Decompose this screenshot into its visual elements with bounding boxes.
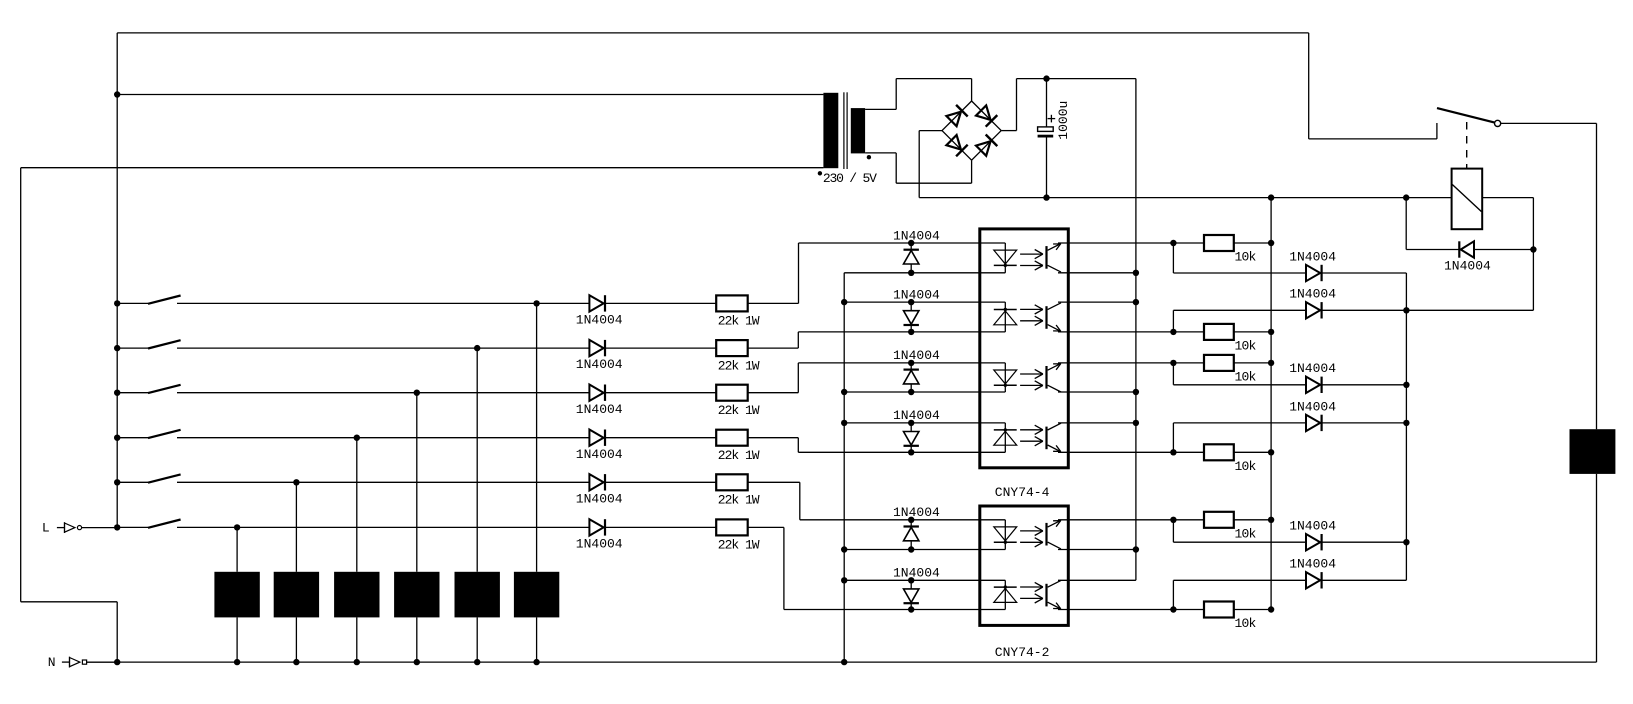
junction row 5 lamp drop bbox=[293, 479, 299, 485]
opto channel 3 light arrows bbox=[1020, 369, 1043, 390]
opto channel 4 LED bbox=[994, 423, 1017, 452]
junction N rail bbox=[114, 659, 120, 665]
wire secondary top c bbox=[896, 78, 971, 80]
junction lamp E5 N rail bbox=[293, 659, 299, 665]
wire right vertical upper bbox=[1596, 123, 1598, 429]
svg-text:1N4004: 1N4004 bbox=[1444, 259, 1491, 274]
wire row 6 to diode bbox=[177, 526, 589, 528]
transformer TR1 core bbox=[844, 92, 847, 169]
wire +5V rail top bbox=[1017, 78, 1136, 80]
opto channel 4 phototransistor bbox=[1047, 423, 1062, 452]
wire row 1 to diode bbox=[177, 302, 589, 304]
junction relay bus diode row 4 bbox=[1403, 420, 1409, 426]
wire switch S2 stub bbox=[117, 347, 148, 349]
junction D8 top bbox=[908, 299, 914, 305]
junction D9 top bbox=[908, 360, 914, 366]
wire diode row 4 right bbox=[1322, 422, 1407, 424]
svg-text:22k 1W: 22k 1W bbox=[718, 493, 760, 508]
junction D10 bottom bbox=[908, 449, 914, 455]
wire contact stub bbox=[1436, 123, 1438, 139]
wire row 2 to diode bbox=[177, 347, 589, 349]
lamp load E4 bbox=[334, 572, 379, 618]
resistor R10 10k bbox=[1204, 444, 1234, 460]
wire LED return ch4 bbox=[844, 422, 1005, 424]
wire row 5 to diode bbox=[177, 481, 589, 483]
wire ch1 emitter to diode row bbox=[1172, 243, 1174, 273]
opto channel 1 phototransistor bbox=[1047, 244, 1062, 273]
wire ch4 emitter to diode row bbox=[1172, 423, 1174, 452]
junction gnd rail freewheel bbox=[1403, 194, 1409, 200]
wire lamp drop row 5 bbox=[295, 482, 297, 572]
wire row 3 to diode bbox=[177, 392, 589, 394]
wire diode row 1 left bbox=[1173, 272, 1306, 274]
wire LED anode ch6 bbox=[784, 609, 1005, 611]
wire ch4 collector to +5 bus bbox=[1058, 422, 1136, 424]
junction +5V rail capacitor bbox=[1043, 75, 1049, 81]
wire diode row 6 left bbox=[1173, 579, 1306, 581]
svg-text:10k: 10k bbox=[1235, 338, 1257, 353]
wire bridge minus drop bbox=[918, 131, 920, 198]
wire secondary top a bbox=[865, 108, 896, 110]
wire L bus vertical bbox=[116, 33, 118, 528]
switch S2 bbox=[148, 340, 181, 348]
wire relay drive bus bbox=[1405, 273, 1407, 580]
wire R10 to gnd bus bbox=[1234, 451, 1271, 453]
svg-text:1N4004: 1N4004 bbox=[1289, 287, 1336, 302]
junction L bus row 2 bbox=[114, 345, 120, 351]
terminal N bbox=[62, 657, 117, 668]
wire secondary top d bbox=[971, 79, 973, 101]
wire lamp E6 to N bbox=[236, 617, 238, 662]
wire LED anode ch1 bbox=[799, 242, 1006, 244]
svg-text:L: L bbox=[42, 521, 50, 536]
junction return bus ch6 bbox=[841, 577, 847, 583]
junction gnd bus R7 bbox=[1268, 240, 1274, 246]
wire freewheel right bbox=[1474, 249, 1533, 251]
wire lamp E3 to N bbox=[416, 617, 418, 662]
junction D11 top bbox=[908, 517, 914, 523]
svg-text:CNY74-4: CNY74-4 bbox=[995, 485, 1050, 500]
junction gnd bus R12 bbox=[1268, 606, 1274, 612]
wire ch2 collector to +5 bus bbox=[1058, 301, 1136, 303]
svg-text:1N4004: 1N4004 bbox=[576, 402, 623, 417]
bridge diode upper-left bbox=[946, 105, 968, 127]
lamp load E1 bbox=[514, 572, 559, 618]
junction gnd bus R8 bbox=[1268, 329, 1274, 335]
svg-text:10k: 10k bbox=[1235, 616, 1257, 631]
wire diode D5 to resistor R5 bbox=[605, 481, 716, 483]
wire lamp E5 to N bbox=[295, 617, 297, 662]
junction ch4 emitter node bbox=[1170, 449, 1176, 455]
wire contact out bbox=[1501, 122, 1597, 124]
bridge diode lower-right bbox=[975, 135, 997, 157]
opto channel 1 light arrows bbox=[1020, 250, 1043, 271]
wire freewheel left drop bbox=[1405, 198, 1407, 250]
wire N corner vertical bbox=[116, 602, 118, 662]
wire ch3 emitter to R9 bbox=[1173, 362, 1204, 364]
diode D8 1N4004 across LED ch2 bbox=[904, 302, 919, 332]
wire coil right b bbox=[1532, 198, 1534, 311]
transformer TR1 230/5V primary bbox=[823, 93, 838, 168]
relay contact S7 blade bbox=[1437, 108, 1495, 123]
junction L bus row 4 bbox=[114, 435, 120, 441]
junction D12 top bbox=[908, 577, 914, 583]
junction +5 bus ch1 collector bbox=[1133, 270, 1139, 276]
capacitor C1 1000u bbox=[1038, 79, 1056, 198]
svg-text:22k 1W: 22k 1W bbox=[718, 358, 760, 373]
opto channel 1 LED bbox=[994, 243, 1017, 273]
bridge diode lower-left bbox=[946, 134, 968, 156]
junction return bus N rail bbox=[841, 659, 847, 665]
diode D7 1N4004 across LED ch1 bbox=[904, 243, 919, 273]
wire secondary bottom b bbox=[895, 153, 897, 183]
svg-text:1N4004: 1N4004 bbox=[1289, 249, 1336, 264]
svg-text:1N4004: 1N4004 bbox=[893, 505, 940, 520]
wire R12 to gnd bus bbox=[1234, 609, 1271, 611]
svg-text:22k 1W: 22k 1W bbox=[718, 448, 760, 463]
switch S4 bbox=[148, 430, 181, 438]
wire R8 to gnd bus bbox=[1234, 331, 1271, 333]
junction relay bus diode row 2 bbox=[1403, 307, 1409, 313]
wire resistor R2 to jog bbox=[748, 347, 799, 349]
resistor R2 22k 1W bbox=[716, 340, 748, 356]
opto channel 5 light arrows bbox=[1020, 526, 1043, 547]
junction +5 bus ch5 collector bbox=[1133, 546, 1139, 552]
wire R7 to gnd bus bbox=[1234, 242, 1271, 244]
junction ch1 emitter node bbox=[1170, 240, 1176, 246]
junction relay bus diode row 3 bbox=[1403, 382, 1409, 388]
diode D16 1N4004 bbox=[1306, 415, 1322, 431]
wire ch2 emitter to R8 bbox=[1173, 331, 1204, 333]
lamp load E6 bbox=[214, 572, 259, 618]
diode D2 1N4004 bbox=[589, 340, 605, 356]
wire diode D2 to resistor R2 bbox=[605, 347, 716, 349]
wire lamp E4 to N bbox=[356, 617, 358, 662]
junction D7 top bbox=[908, 240, 914, 246]
junction gnd bus R9 bbox=[1268, 360, 1274, 366]
wire ch6 emitter to R12 bbox=[1173, 609, 1204, 611]
wire LED return ch6 bbox=[844, 579, 1005, 581]
diode D10 1N4004 across LED ch4 bbox=[904, 423, 919, 452]
wire jog vertical row 3 bbox=[797, 363, 799, 393]
wire ch1 collector to +5 bus bbox=[1058, 272, 1136, 274]
wire ch5 emitter to diode row bbox=[1172, 520, 1174, 542]
junction D8 bottom bbox=[908, 329, 914, 335]
wire secondary bottom d bbox=[971, 160, 973, 183]
wire ch5 emitter bbox=[1058, 519, 1173, 521]
wire N corner horizontal bbox=[21, 601, 118, 603]
wire gnd bus bbox=[1270, 198, 1272, 610]
wire LED return ch1 bbox=[844, 272, 1005, 274]
junction return bus ch2 bbox=[841, 299, 847, 305]
wire diode row 5 right bbox=[1322, 541, 1407, 543]
wire lamp drop row 2 bbox=[476, 348, 478, 572]
relay contact S7 pivot bbox=[1495, 120, 1501, 126]
svg-text:1N4004: 1N4004 bbox=[576, 313, 623, 328]
junction L bus row 6 bbox=[114, 524, 120, 530]
wire ch1 emitter to R7 bbox=[1173, 242, 1204, 244]
switch S3 bbox=[148, 385, 181, 393]
resistor R5 22k 1W bbox=[716, 474, 748, 490]
transformer TR1 primary phase dot bbox=[818, 171, 822, 175]
svg-text:1N4004: 1N4004 bbox=[893, 348, 940, 363]
opto channel 2 phototransistor bbox=[1047, 303, 1062, 332]
junction gnd rail capacitor bbox=[1043, 194, 1049, 200]
svg-text:10k: 10k bbox=[1235, 369, 1257, 384]
svg-text:1N4004: 1N4004 bbox=[1289, 361, 1336, 376]
junction D10 top bbox=[908, 420, 914, 426]
wire diode D4 to resistor R4 bbox=[605, 437, 716, 439]
junction L bus row 3 bbox=[114, 390, 120, 396]
opto channel 6 light arrows bbox=[1020, 582, 1043, 603]
diode D11 1N4004 across LED ch5 bbox=[904, 520, 919, 550]
wire diode row 1 right bbox=[1322, 272, 1407, 274]
junction D11 bottom bbox=[908, 546, 914, 552]
wire LED return bus bbox=[843, 273, 845, 662]
wire ch6 collector to +5 bus end bbox=[1058, 579, 1136, 581]
load box right bbox=[1570, 429, 1616, 474]
svg-text:1N4004: 1N4004 bbox=[576, 447, 623, 462]
wire diode D3 to resistor R3 bbox=[605, 392, 716, 394]
optocoupler U2 CNY74-2 box bbox=[980, 506, 1069, 625]
opto channel 3 phototransistor bbox=[1047, 363, 1062, 392]
wire resistor R6 to jog bbox=[748, 526, 784, 528]
wire LED anode ch2 bbox=[798, 331, 1005, 333]
wire top L net bbox=[117, 32, 1309, 34]
svg-text:N: N bbox=[48, 655, 56, 670]
junction return bus ch3 bbox=[841, 389, 847, 395]
relay K1 coil bbox=[1452, 169, 1483, 230]
resistor R4 22k 1W bbox=[716, 430, 748, 446]
wire jog vertical row 6 bbox=[783, 527, 785, 609]
svg-text:1000u: 1000u bbox=[1056, 101, 1071, 140]
opto channel 6 LED bbox=[994, 580, 1017, 609]
svg-text:1N4004: 1N4004 bbox=[576, 491, 623, 506]
wire row 4 to diode bbox=[177, 437, 589, 439]
wire resistor R3 to jog bbox=[748, 392, 799, 394]
wire LED anode ch3 bbox=[798, 362, 1005, 364]
wire diode row 3 right bbox=[1322, 384, 1407, 386]
svg-text:1N4004: 1N4004 bbox=[893, 287, 940, 302]
wire secondary bottom a bbox=[865, 152, 896, 154]
junction lamp E6 N rail bbox=[234, 659, 240, 665]
wire lamp drop row 4 bbox=[356, 438, 358, 572]
wire diode row 2 right bbox=[1322, 309, 1534, 311]
junction row 1 lamp drop bbox=[533, 300, 539, 306]
wire ch3 collector to +5 bus bbox=[1058, 391, 1136, 393]
wire LED anode ch5 bbox=[800, 519, 1006, 521]
wire switch S1 stub bbox=[117, 302, 148, 304]
wire secondary top b bbox=[895, 79, 897, 110]
wire resistor R5 to jog bbox=[748, 481, 800, 483]
diode D9 1N4004 across LED ch3 bbox=[904, 363, 919, 392]
terminal L bbox=[57, 522, 117, 533]
relay K1 mechanical link bbox=[1466, 122, 1468, 169]
junction lamp E1 N rail bbox=[533, 659, 539, 665]
wire N to transformer primary bottom bbox=[21, 167, 824, 169]
wire LED anode ch4 bbox=[798, 451, 1005, 453]
opto channel 2 light arrows bbox=[1020, 305, 1043, 326]
lamp load E3 bbox=[394, 572, 439, 618]
switch S1 bbox=[148, 296, 181, 304]
junction row 2 lamp drop bbox=[474, 345, 480, 351]
wire switch S4 stub bbox=[117, 437, 148, 439]
diode D15 1N4004 bbox=[1306, 377, 1322, 393]
wire R9 to gnd bus bbox=[1234, 362, 1271, 364]
wire jog vertical row 5 bbox=[799, 482, 801, 520]
wire ch5 emitter to R11 bbox=[1173, 519, 1204, 521]
wire lamp drop row 1 bbox=[536, 303, 538, 571]
wire diode row 5 left bbox=[1173, 541, 1306, 543]
svg-text:230 / 5V: 230 / 5V bbox=[823, 171, 877, 186]
wire ch3 emitter to diode row bbox=[1172, 363, 1174, 385]
wire diode row 4 left bbox=[1173, 422, 1306, 424]
wire bridge plus stub bbox=[1001, 130, 1016, 132]
wire diode row 2 left bbox=[1173, 309, 1306, 311]
svg-text:CNY74-2: CNY74-2 bbox=[995, 645, 1050, 660]
wire diode D1 to resistor R1 bbox=[605, 302, 716, 304]
lamp load E2 bbox=[455, 572, 500, 618]
junction lamp E4 N rail bbox=[354, 659, 360, 665]
wire jog vertical row 2 bbox=[797, 332, 799, 348]
junction row 6 lamp drop bbox=[234, 524, 240, 530]
junction gnd rail gnd bus bbox=[1268, 194, 1274, 200]
opto channel 2 LED bbox=[994, 302, 1017, 332]
wire N bottom rail bbox=[87, 661, 1597, 663]
opto channel 4 light arrows bbox=[1020, 425, 1043, 446]
wire diode row 3 left bbox=[1173, 384, 1306, 386]
junction return bus ch4 bbox=[841, 420, 847, 426]
diode D3 1N4004 bbox=[589, 385, 605, 401]
diode D4 1N4004 bbox=[589, 430, 605, 446]
svg-text:1N4004: 1N4004 bbox=[1289, 399, 1336, 414]
wire +5V bus bbox=[1135, 79, 1137, 581]
junction ch3 emitter node bbox=[1170, 360, 1176, 366]
svg-text:10k: 10k bbox=[1235, 459, 1257, 474]
wire lamp drop row 3 bbox=[416, 393, 418, 572]
wire ch2 emitter to diode row bbox=[1172, 310, 1174, 332]
wire LED return ch3 bbox=[844, 391, 1005, 393]
wire gnd rail bbox=[919, 197, 1451, 199]
transformer TR1 secondary phase dot bbox=[867, 155, 871, 159]
resistor R3 22k 1W bbox=[716, 385, 748, 401]
wire ch6 emitter to diode row bbox=[1172, 580, 1174, 609]
junction row 3 lamp drop bbox=[414, 390, 420, 396]
diode D14 1N4004 bbox=[1306, 302, 1322, 318]
resistor R12 10k bbox=[1204, 602, 1234, 618]
opto channel 6 phototransistor bbox=[1047, 580, 1062, 609]
svg-text:22k 1W: 22k 1W bbox=[718, 314, 760, 329]
junction return bus ch5 bbox=[841, 546, 847, 552]
wire lamp drop row 6 bbox=[236, 527, 238, 571]
wire lamp E1 to N bbox=[536, 617, 538, 662]
svg-text:10k: 10k bbox=[1235, 526, 1257, 541]
junction D12 bottom bbox=[908, 606, 914, 612]
diode D1 1N4004 bbox=[589, 295, 605, 311]
resistor R7 10k bbox=[1204, 235, 1234, 251]
junction freewheel right bbox=[1530, 246, 1536, 252]
wire freewheel left bbox=[1406, 249, 1459, 251]
lamp load E5 bbox=[274, 572, 319, 618]
junction relay bus diode row 5 bbox=[1403, 539, 1409, 545]
svg-text:1N4004: 1N4004 bbox=[893, 408, 940, 423]
wire to contact bbox=[1309, 138, 1437, 140]
diode D19 1N4004 freewheel bbox=[1459, 241, 1474, 257]
svg-text:1N4004: 1N4004 bbox=[1289, 519, 1336, 534]
junction ch2 emitter node bbox=[1170, 329, 1176, 335]
wire diode row 6 right bbox=[1322, 579, 1407, 581]
opto channel 3 LED bbox=[994, 363, 1017, 392]
wire ch1 emitter bbox=[1058, 242, 1173, 244]
junction L bus row 5 bbox=[114, 479, 120, 485]
wire coil right a bbox=[1482, 197, 1533, 199]
wire jog vertical row 1 bbox=[798, 243, 800, 303]
wire switch S3 stub bbox=[117, 392, 148, 394]
svg-text:1N4004: 1N4004 bbox=[893, 566, 940, 581]
switch S6 bbox=[148, 520, 181, 528]
wire bridge plus rise bbox=[1016, 79, 1018, 131]
svg-text:22k 1W: 22k 1W bbox=[718, 538, 760, 553]
wire diode D6 to resistor R6 bbox=[605, 526, 716, 528]
wire ch4 emitter bbox=[1058, 451, 1173, 453]
svg-text:1N4004: 1N4004 bbox=[576, 537, 623, 552]
optocoupler U1 CNY74-4 box bbox=[980, 229, 1069, 468]
transformer TR1 secondary bbox=[851, 108, 865, 153]
svg-text:10k: 10k bbox=[1235, 250, 1257, 265]
bridge diode upper-right bbox=[975, 105, 997, 127]
diode D12 1N4004 across LED ch6 bbox=[904, 580, 919, 609]
resistor R1 22k 1W bbox=[716, 295, 748, 311]
wire secondary bottom c bbox=[896, 182, 971, 184]
diode D5 1N4004 bbox=[589, 474, 605, 490]
diode D13 1N4004 bbox=[1306, 265, 1322, 281]
junction +5 bus ch3 collector bbox=[1133, 389, 1139, 395]
junction row 4 lamp drop bbox=[354, 435, 360, 441]
diode D17 1N4004 bbox=[1306, 534, 1322, 550]
resistor R8 10k bbox=[1204, 324, 1234, 340]
resistor R11 10k bbox=[1204, 512, 1234, 528]
resistor R6 22k 1W bbox=[716, 519, 748, 535]
svg-text:22k 1W: 22k 1W bbox=[718, 403, 760, 418]
wire resistor R1 to jog bbox=[748, 302, 799, 304]
junction lamp E2 N rail bbox=[474, 659, 480, 665]
switch S5 bbox=[148, 474, 181, 482]
wire N left vertical bbox=[20, 168, 22, 602]
wire to transformer primary top bbox=[117, 94, 823, 96]
junction L bus / primary feed bbox=[114, 91, 120, 97]
junction ch6 emitter node bbox=[1170, 606, 1176, 612]
opto channel 5 phototransistor bbox=[1047, 520, 1062, 549]
wire switch S6 stub bbox=[117, 526, 148, 528]
wire switch S5 stub bbox=[117, 481, 148, 483]
junction +5 bus ch4 collector bbox=[1133, 420, 1139, 426]
junction D9 bottom bbox=[908, 389, 914, 395]
opto channel 5 LED bbox=[994, 520, 1017, 550]
wire jog vertical row 4 bbox=[797, 438, 799, 453]
wire LED return ch5 bbox=[844, 549, 1005, 551]
wire ch3 emitter bbox=[1058, 362, 1173, 364]
bridge rectifier B1 diamond bbox=[942, 101, 1001, 160]
wire bridge minus stub bbox=[919, 130, 942, 132]
junction D7 bottom bbox=[908, 270, 914, 276]
resistor R9 10k bbox=[1204, 355, 1234, 371]
junction L bus row 1 bbox=[114, 300, 120, 306]
wire lamp E2 to N bbox=[476, 617, 478, 662]
wire ch2 emitter bbox=[1058, 331, 1173, 333]
junction gnd bus R10 bbox=[1268, 449, 1274, 455]
wire ch5 collector to +5 bus bbox=[1058, 549, 1136, 551]
svg-text:1N4004: 1N4004 bbox=[576, 357, 623, 372]
